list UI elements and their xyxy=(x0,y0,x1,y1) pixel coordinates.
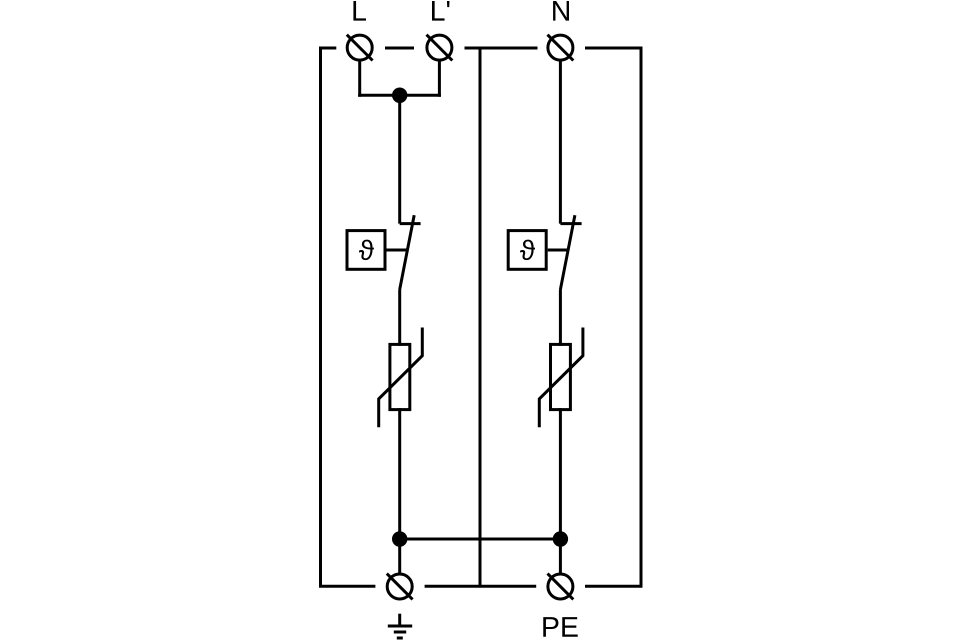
enclosure top border wire segment (L' to terminal N) xyxy=(465,47,538,50)
enclosure bottom border wire segment (ground terminal to PE terminal) xyxy=(425,585,537,588)
theta label (right) xyxy=(520,240,535,261)
junction node L/L' xyxy=(392,88,407,103)
wire from terminal N down to thermal switch xyxy=(559,59,562,224)
bottom junction node (left) xyxy=(392,531,407,546)
enclosure left border wire xyxy=(319,48,322,586)
terminal L xyxy=(347,35,373,61)
theta label (left) xyxy=(359,240,374,261)
label N xyxy=(553,1,569,21)
wire from blade to varistor (right) xyxy=(559,290,562,346)
wire below terminal L xyxy=(358,59,361,97)
wire joining L and L' drops xyxy=(358,94,441,97)
thermal disconnect switch blade (right) xyxy=(560,215,575,289)
enclosure top border wire segment (corner to terminal L) xyxy=(319,47,336,50)
thermal disconnect switch blade (left) xyxy=(400,215,415,289)
terminal L' xyxy=(427,35,453,61)
thermal disconnect switch fixed contact (left) xyxy=(400,222,421,225)
thermal sensor box (left) xyxy=(347,231,385,270)
varistor diagonal stroke (right) xyxy=(539,328,583,428)
enclosure right border wire xyxy=(640,48,643,586)
thermal sensor box (right) xyxy=(508,231,546,270)
label L' xyxy=(432,1,450,21)
varistor diagonal stroke (left) xyxy=(379,328,423,428)
varistor body (left) xyxy=(390,344,410,409)
label PE xyxy=(543,617,577,637)
wire from blade to varistor (left) xyxy=(398,290,401,346)
thermal disconnect switch fixed contact (right) xyxy=(560,222,581,225)
ground symbol xyxy=(388,614,412,638)
wire from theta box to blade (right) xyxy=(548,249,569,252)
enclosure top border wire segment (N to right corner) xyxy=(585,47,643,50)
wire dash between L and L' xyxy=(385,47,414,50)
wire from theta box to blade (left) xyxy=(387,249,408,252)
wire from L/L' node down to thermal switch xyxy=(398,95,401,223)
enclosure middle divider wire xyxy=(479,48,482,586)
wire from varistor down to bottom node (left) xyxy=(398,408,401,539)
terminal N xyxy=(548,35,574,61)
varistor body (right) xyxy=(551,344,571,409)
terminal PE (bottom right) xyxy=(548,574,574,600)
wire below terminal L' xyxy=(438,59,441,97)
wire joining bottom nodes xyxy=(400,538,561,541)
wire from varistor down to bottom node (right) xyxy=(559,408,562,539)
bottom junction node (right) xyxy=(553,531,568,546)
label L xyxy=(353,1,366,21)
wire from left node to ground terminal xyxy=(398,539,401,575)
enclosure bottom border wire segment (PE terminal to right corner) xyxy=(585,585,643,588)
wire from right node to PE terminal xyxy=(559,539,562,575)
enclosure bottom border wire segment (left corner to ground terminal) xyxy=(319,585,375,588)
terminal ground (bottom left) xyxy=(387,574,413,600)
